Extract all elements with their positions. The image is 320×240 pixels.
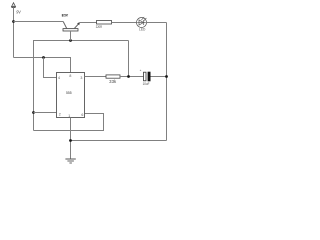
wire: R2 to capacitor (120, 76, 143, 78)
resistor R2 33k (106, 75, 120, 78)
svg-text:6: 6 (81, 113, 83, 117)
resistor R1 220R (97, 21, 112, 25)
node: 33k/cap junction (127, 75, 130, 78)
capacitor C1 polarized (140, 68, 151, 81)
wire: pin 3 to resistor R2 (85, 76, 107, 78)
wire: base net horizontal (33, 40, 129, 42)
wire: 9V to transistor collector (14, 21, 64, 23)
svg-text:1: 1 (68, 114, 70, 118)
wire: LED to right rail (147, 22, 167, 24)
LED D1 (137, 17, 147, 28)
ground (65, 159, 75, 163)
wire: branch to pin 4 (44, 58, 57, 78)
node: 9V tap junction (12, 20, 15, 23)
node: ground junction (69, 139, 72, 142)
svg-text:2: 2 (59, 113, 61, 117)
wire: left rail corner to pin8 feed (14, 58, 71, 73)
wire: capacitor to right rail (151, 76, 167, 78)
svg-text:BC547: BC547 (62, 14, 69, 18)
wire: right rail down (166, 23, 168, 141)
wire: bottom rail to ground (71, 140, 167, 142)
IC U1 555 (57, 73, 85, 118)
svg-text:LED: LED (139, 28, 146, 32)
wire: to pin 2 (34, 112, 57, 114)
transistor Q1 BC547 (63, 22, 80, 32)
wire: emitter to resistor R1 (80, 22, 97, 24)
wire: down to 33k/cap node (128, 41, 130, 77)
wire: R1 to LED (112, 22, 137, 24)
node: transistor base junction (69, 39, 72, 42)
svg-text:220R: 220R (96, 25, 103, 29)
svg-text:8: 8 (69, 74, 71, 78)
wire: pins 2/6 net left vertical (33, 41, 35, 131)
svg-text:10uF: 10uF (143, 82, 150, 86)
wire: pin 1 down to ground (70, 118, 72, 159)
node: pin4 branch junction (42, 56, 45, 59)
svg-text:9V: 9V (16, 10, 22, 15)
node: cap to rail junction (165, 75, 168, 78)
wire: transistor base lead down (70, 31, 72, 41)
svg-text:3: 3 (80, 76, 82, 80)
svg-text:+: + (140, 68, 142, 72)
svg-text:4: 4 (58, 76, 60, 80)
svg-text:555: 555 (66, 91, 72, 95)
node: pin2 junction (32, 111, 35, 114)
power supply 9V symbol (11, 3, 15, 58)
wire: U loop joining pin2 net to pin 6 (34, 114, 104, 131)
svg-text:33k: 33k (109, 79, 117, 84)
